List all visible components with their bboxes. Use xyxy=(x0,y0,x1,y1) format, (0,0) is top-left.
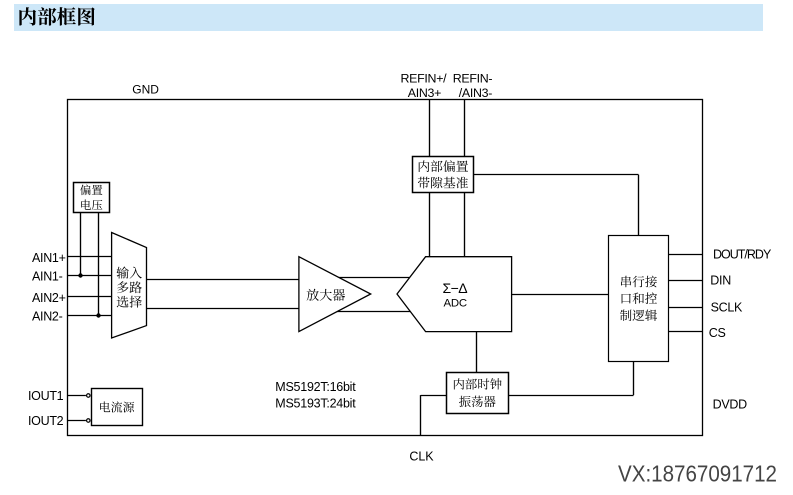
wire DOUT/RDY xyxy=(669,254,703,256)
wire REFIN- vertical xyxy=(464,100,466,257)
wire amp to adc top xyxy=(330,277,415,279)
block sigma-delta ADC xyxy=(397,257,512,332)
wire bandgap to serial vertical xyxy=(638,175,640,235)
wire bias to AIN1- vertical xyxy=(80,212,82,275)
title text 内部框图 xyxy=(19,7,94,25)
wire mux to amp top xyxy=(147,279,300,281)
svg-text:Σ−Δ: Σ−Δ xyxy=(442,280,467,296)
svg-text:VX:18767091712: VX:18767091712 xyxy=(618,460,777,486)
svg-text:AIN1-: AIN1- xyxy=(32,269,63,283)
wire REFIN+ vertical xyxy=(429,100,431,257)
label 电压 xyxy=(81,199,102,210)
block internal clock oscillator xyxy=(447,373,509,414)
label 振荡器 xyxy=(459,396,496,407)
wire CLK vertical xyxy=(420,395,422,435)
wire IOUT1 xyxy=(68,395,86,397)
svg-text:REFIN-: REFIN- xyxy=(453,71,493,85)
wire CS xyxy=(669,331,703,333)
title bar xyxy=(14,4,763,31)
svg-text:AIN1+: AIN1+ xyxy=(32,251,66,265)
wire AIN2- xyxy=(68,315,112,317)
label 带隙基准 xyxy=(418,177,468,189)
svg-text:MS5193T:24bit: MS5193T:24bit xyxy=(275,397,356,411)
wire amp to adc bottom xyxy=(330,311,415,313)
block serial interface and control logic xyxy=(609,236,669,362)
wire oscillator to CLK horizontal xyxy=(421,395,446,397)
block internal bias bandgap reference xyxy=(413,157,474,193)
label 内部偏置 xyxy=(419,160,468,172)
wire SCLK xyxy=(669,307,703,309)
svg-text:IOUT2: IOUT2 xyxy=(28,414,64,428)
label 电流源 xyxy=(100,401,134,412)
svg-text:CS: CS xyxy=(709,326,726,340)
junction dot AIN1- xyxy=(78,273,82,277)
svg-text:GND: GND xyxy=(132,83,159,97)
label 多路 xyxy=(117,281,142,293)
svg-text:REFIN+/: REFIN+/ xyxy=(401,71,448,85)
svg-text:/AIN3-: /AIN3- xyxy=(459,86,492,100)
svg-text:DOUT/RDY: DOUT/RDY xyxy=(713,247,772,261)
chip boundary rectangle xyxy=(68,100,703,436)
svg-text:DVDD: DVDD xyxy=(713,397,747,411)
wire bandgap to serial horizontal xyxy=(474,174,639,176)
label 偏置 xyxy=(80,185,102,196)
wire AIN1- xyxy=(68,275,112,277)
wire DIN xyxy=(669,280,703,282)
junction dot AIN2- xyxy=(96,313,100,317)
label 串行接 xyxy=(621,276,657,288)
open terminal circle IOUT2 xyxy=(87,419,91,423)
svg-text:DIN: DIN xyxy=(710,273,731,287)
wire AIN2+ xyxy=(68,296,112,298)
svg-text:SCLK: SCLK xyxy=(711,300,743,314)
wire oscillator to serial horizontal xyxy=(509,395,634,397)
wire oscillator to serial vertical xyxy=(633,361,635,395)
svg-text:AIN2+: AIN2+ xyxy=(32,291,66,305)
label 放大器 xyxy=(307,289,345,301)
open terminal circle IOUT1 xyxy=(87,394,91,398)
label 内部时钟 xyxy=(454,378,502,389)
svg-text:IOUT1: IOUT1 xyxy=(28,389,64,403)
svg-text:ADC: ADC xyxy=(443,298,466,310)
svg-text:AIN3+: AIN3+ xyxy=(408,86,441,100)
svg-text:AIN2-: AIN2- xyxy=(32,310,63,324)
wire bias to AIN2- vertical xyxy=(98,212,100,315)
op-amp amplifier 放大器 xyxy=(299,257,371,332)
label 口和控 xyxy=(622,292,657,304)
wire AIN1+ xyxy=(68,256,112,258)
block bias voltage 偏置电压 xyxy=(74,183,110,213)
wire adc to serial xyxy=(512,294,609,296)
svg-text:CLK: CLK xyxy=(409,450,434,464)
wire mux to amp bottom xyxy=(147,308,300,310)
block current source 电流源 xyxy=(92,389,143,426)
label 输入 xyxy=(117,267,142,279)
svg-text:MS5192T:16bit: MS5192T:16bit xyxy=(275,380,356,394)
block input multiplexer 输入多路选择 xyxy=(112,233,147,339)
label 制逻辑 xyxy=(620,309,657,321)
label 选择 xyxy=(117,296,142,308)
wire adc to oscillator vertical xyxy=(476,332,478,373)
wire IOUT2 xyxy=(68,420,86,422)
